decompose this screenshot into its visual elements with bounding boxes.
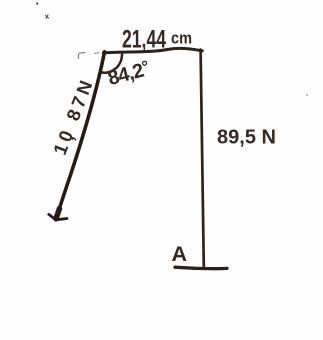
svg-text:cm: cm <box>171 29 192 48</box>
faint speck right side <box>306 94 308 96</box>
arrowhead at lower end of diagonal <box>56 209 60 219</box>
label 10,87 N along diagonal <box>49 74 100 158</box>
faint erased pencil hook left of corner <box>78 53 85 59</box>
faint tick mark top-left <box>46 15 49 19</box>
faint dot speck top-left <box>36 2 38 4</box>
svg-text:A: A <box>172 242 188 266</box>
faint erased pencil dash near corner <box>95 52 100 55</box>
diagonal strut / force line 10,87 N <box>56 52 104 219</box>
right vertical member (89,5 N side) <box>201 50 204 267</box>
base/support line at A <box>175 267 227 269</box>
label 84,2 degrees <box>105 57 152 90</box>
svg-text:89,5 N: 89,5 N <box>217 125 276 148</box>
top beam (21,44 cm side) <box>104 48 203 53</box>
svg-text:10,87N: 10,87N <box>49 74 100 158</box>
svg-text:84,2°: 84,2° <box>105 57 152 90</box>
angle arc 84,2 deg <box>100 55 122 73</box>
svg-text:21,44: 21,44 <box>122 26 166 54</box>
